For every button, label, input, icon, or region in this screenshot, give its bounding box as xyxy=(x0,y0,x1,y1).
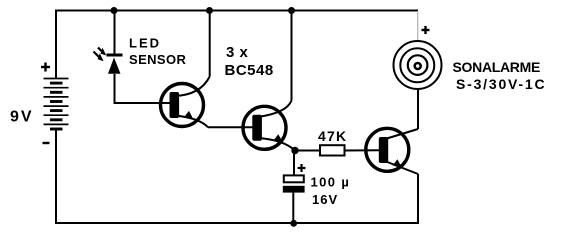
battery B1 9V xyxy=(44,79,69,130)
light arrows into LED xyxy=(94,48,107,62)
svg-text:S-3/30V-1C: S-3/30V-1C xyxy=(456,76,546,92)
LED sensor D1 xyxy=(107,54,123,74)
junction dot bottom rail / capacitor xyxy=(290,220,297,227)
resistor R1 47K xyxy=(320,145,345,155)
svg-text:9V: 9V xyxy=(10,109,34,126)
svg-text:BC548: BC548 xyxy=(225,62,274,79)
wire LED anode down and right to Q1 base xyxy=(114,74,116,103)
wire bottom rail xyxy=(55,222,419,224)
svg-text:16V: 16V xyxy=(312,192,338,207)
capacitor C1 100u xyxy=(283,175,305,192)
wire Q3 emitter to bottom rail xyxy=(417,174,419,224)
wire left vertical to battery + xyxy=(55,10,57,80)
svg-text:SONALARME: SONALARME xyxy=(453,59,541,75)
transistor Q1 xyxy=(161,77,210,128)
wire top rail xyxy=(55,10,418,12)
junction dot top rail / Q2 collector xyxy=(288,7,295,14)
wire top rail to LED cathode xyxy=(114,11,116,55)
wire Q2 collector to top rail xyxy=(291,10,293,101)
transistor Q2 xyxy=(243,101,295,151)
junction dot Q2 emitter node xyxy=(291,147,298,154)
battery minus sign xyxy=(43,142,50,144)
wire resistor to Q3 base xyxy=(345,149,380,151)
svg-text:LED: LED xyxy=(129,36,161,51)
wire Q1 collector to top rail xyxy=(209,10,211,77)
wire faint top rail to speaker xyxy=(417,11,419,42)
svg-text:47K: 47K xyxy=(318,128,347,144)
wire capacitor drop xyxy=(293,151,295,177)
wire battery - to bottom rail xyxy=(55,129,57,224)
wire Q3 collector to speaker xyxy=(417,89,419,129)
junction dot top rail / Q1 collector xyxy=(206,7,213,14)
svg-text:SENSOR: SENSOR xyxy=(129,52,187,67)
battery plus sign xyxy=(41,63,50,72)
svg-text:3 x: 3 x xyxy=(226,44,249,61)
transistor Q3 xyxy=(366,128,418,174)
speaker plus sign xyxy=(422,26,430,34)
wire Q1 emitter to Q2 base xyxy=(208,126,254,128)
wire capacitor to bottom rail xyxy=(292,193,294,224)
wire node to resistor xyxy=(295,150,320,152)
capacitor C1 plus sign xyxy=(298,164,306,172)
speaker SONALARME xyxy=(394,41,442,89)
svg-text:100 µ: 100 µ xyxy=(311,175,351,190)
junction dot top rail / LED xyxy=(111,7,118,14)
